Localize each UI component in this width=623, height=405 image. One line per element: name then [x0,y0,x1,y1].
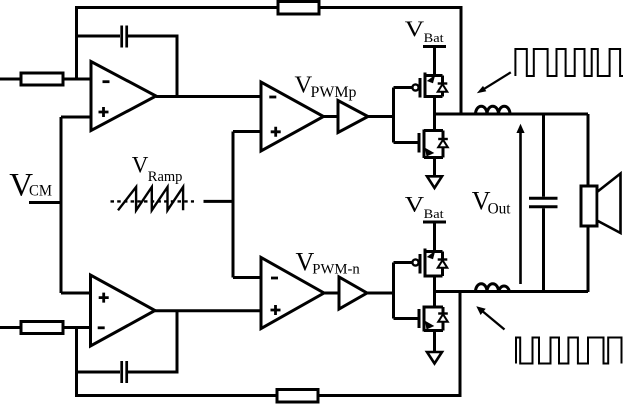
svg-text:Bat: Bat [424,31,445,45]
svg-text:V: V [405,17,425,41]
svg-text:V: V [405,192,425,216]
svg-text:CM: CM [29,183,52,200]
svg-text:PWM-n: PWM-n [312,261,360,277]
svg-text:Bat: Bat [424,207,445,221]
svg-text:Ramp: Ramp [148,169,183,185]
svg-text:Out: Out [488,200,512,217]
svg-text:PWMp: PWMp [311,84,357,101]
svg-text:V: V [132,153,149,178]
